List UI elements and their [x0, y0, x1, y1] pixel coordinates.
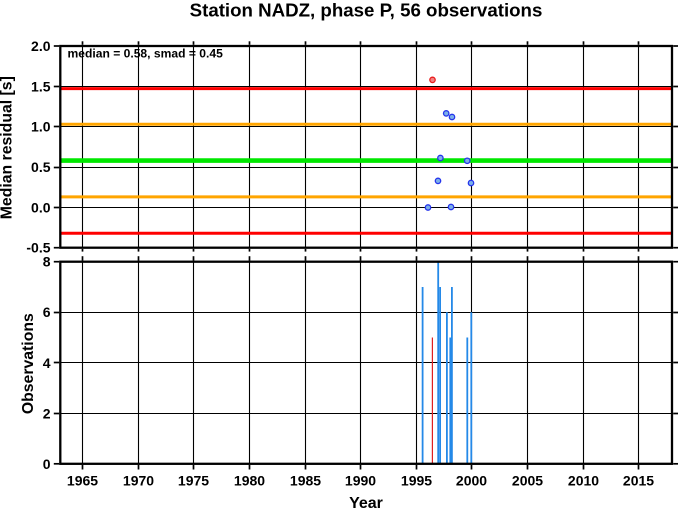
svg-text:1990: 1990 — [345, 473, 376, 489]
svg-text:2010: 2010 — [568, 473, 599, 489]
svg-text:4: 4 — [43, 355, 51, 371]
svg-text:Year: Year — [349, 495, 383, 511]
svg-text:median = 0.58, smad = 0.45: median = 0.58, smad = 0.45 — [68, 46, 224, 60]
svg-text:1965: 1965 — [67, 473, 98, 489]
svg-text:Observations: Observations — [20, 313, 37, 414]
svg-text:2: 2 — [43, 405, 51, 421]
svg-text:0.0: 0.0 — [31, 199, 51, 215]
svg-text:2015: 2015 — [623, 473, 654, 489]
svg-text:2000: 2000 — [456, 473, 487, 489]
svg-text:6: 6 — [43, 304, 51, 320]
svg-text:1980: 1980 — [234, 473, 265, 489]
svg-text:Median residual [s]: Median residual [s] — [0, 76, 16, 219]
svg-text:1975: 1975 — [178, 473, 209, 489]
svg-text:0.5: 0.5 — [31, 159, 51, 175]
svg-text:1.5: 1.5 — [31, 78, 51, 94]
svg-text:0: 0 — [43, 456, 51, 472]
svg-text:Station NADZ, phase P, 56 obse: Station NADZ, phase P, 56 observations — [190, 0, 543, 21]
svg-text:1995: 1995 — [401, 473, 432, 489]
svg-text:2.0: 2.0 — [31, 38, 51, 54]
svg-text:1985: 1985 — [290, 473, 321, 489]
svg-text:1.0: 1.0 — [31, 119, 51, 135]
svg-text:1970: 1970 — [123, 473, 154, 489]
svg-text:2005: 2005 — [512, 473, 543, 489]
svg-text:8: 8 — [43, 254, 51, 270]
